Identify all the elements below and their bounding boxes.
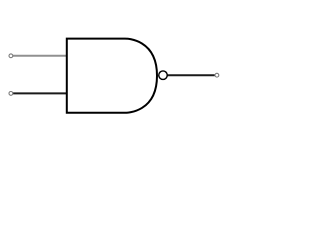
- wire bottom input: [13, 92, 66, 94]
- nand gate U1 output bubble: [159, 71, 168, 80]
- input terminal pin 2: [9, 92, 13, 96]
- output terminal pin 3: [215, 73, 219, 77]
- input terminal pin 1: [9, 54, 13, 58]
- wire top input (gray net): [13, 55, 66, 57]
- nand gate U1 body: [67, 39, 157, 113]
- wire output: [167, 74, 214, 76]
